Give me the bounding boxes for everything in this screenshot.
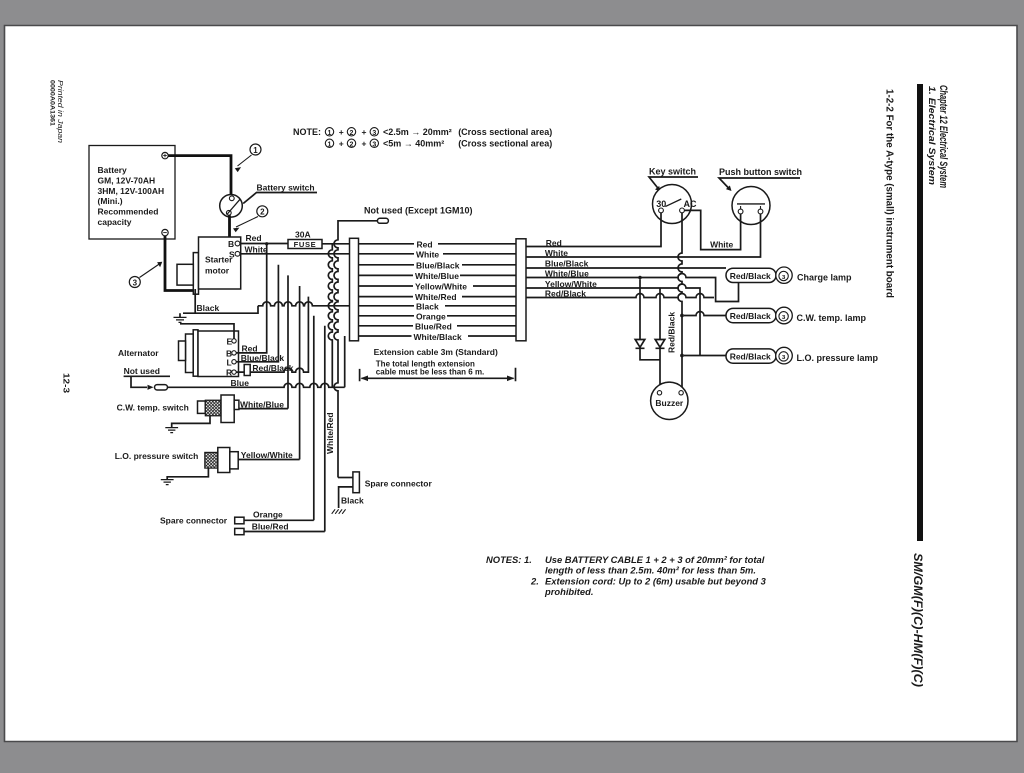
wire white/blue to C.W. switch [239,408,288,410]
wire battery minus to starter body (cable 3) [165,236,193,291]
wire switch to starter B (cable 2) [230,215,236,243]
svg-text:Charge lamp: Charge lamp [797,273,852,283]
spare connector left box 1 [235,517,244,524]
battery switch [220,195,243,218]
ground C.W. switch [172,416,210,428]
svg-text:2: 2 [260,208,265,217]
wire red/black row [526,294,714,298]
svg-text:+: + [362,127,367,137]
svg-text:1: 1 [253,146,258,155]
svg-text:Chapter 12 Electrical System: Chapter 12 Electrical System [937,85,949,188]
svg-text:Red: Red [546,238,562,248]
bus row black [359,305,517,307]
svg-text:3: 3 [133,278,138,287]
svg-text:<2.5m → 20mm²: <2.5m → 20mm² [383,127,452,137]
svg-text:Not used (Except 1GM10): Not used (Except 1GM10) [364,206,473,216]
svg-text:R: R [226,368,232,378]
svg-text:cable must be less than 6 m.: cable must be less than 6 m. [376,367,484,376]
bus row white [359,253,517,255]
wire not used stub [131,376,147,387]
junction dot red row [265,242,268,245]
alternator box [198,331,239,377]
svg-text:Battery: Battery [98,165,128,175]
svg-text:+: + [339,138,344,148]
svg-text:Red: Red [246,233,262,243]
svg-text:White/Blue: White/Blue [240,399,284,409]
junction dot C.W. lamp [680,314,684,318]
dimension line [360,368,516,382]
link white/black row to blue row [344,336,346,387]
svg-text:з: з [782,274,786,281]
svg-text:White/Blue: White/Blue [545,269,589,279]
svg-text:3: 3 [372,141,376,148]
svg-text:Red/Black: Red/Black [730,311,771,321]
svg-text:C.W. temp. switch: C.W. temp. switch [117,403,189,413]
fuse box [288,240,322,249]
blue/red wire [244,531,325,533]
wire key 30 to red row [526,213,661,247]
wire battery plus to switch (cable 1) [168,156,231,195]
L.O. pressure lamp [776,347,793,364]
svg-text:Recommended: Recommended [98,207,159,217]
svg-text:length of less than 2.5m. 40m²: length of less than 2.5m. 40m² for less … [545,565,756,576]
svg-text:2.: 2. [530,575,539,586]
svg-text:2: 2 [350,141,354,148]
wire L.O. lamp row [684,355,726,357]
callout circle 1 [250,144,261,155]
svg-text:Spare connector: Spare connector [365,478,433,488]
note circled 2 [347,128,355,136]
svg-text:White: White [416,249,439,259]
svg-text:Blue/Black: Blue/Black [241,353,285,363]
svg-text:C.W. temp. lamp: C.W. temp. lamp [797,313,867,323]
svg-text:Printed in Japan: Printed in Japan [56,80,63,143]
diode 1 [635,279,660,360]
svg-text:Blue/Black: Blue/Black [545,259,589,269]
svg-text:White: White [245,244,268,254]
L.O. pressure switch [205,452,218,468]
svg-text:Extension cable 3m (Standard): Extension cable 3m (Standard) [374,347,498,357]
C.W. temp lamp [776,307,793,324]
svg-text:Red/Black: Red/Black [730,352,771,362]
alternator body [193,330,198,376]
battery plus terminal [162,152,168,158]
wire C.W. lamp row [684,312,726,316]
svg-text:S: S [229,250,235,260]
svg-text:Yellow/White: Yellow/White [545,279,597,289]
starter motor body [193,253,198,295]
svg-text:NOTES: 1.: NOTES: 1. [486,554,532,565]
svg-text:Red/Black: Red/Black [545,289,586,299]
svg-text:1: 1 [328,141,332,148]
svg-text:1-2-2 For the A-type (small) i: 1-2-2 For the A-type (small) instrument … [884,89,895,298]
svg-text:Spare connector: Spare connector [160,516,228,526]
svg-text:Orange: Orange [253,510,283,520]
callout circle 3 [129,277,140,288]
lozenge connector on blue wire [155,385,168,390]
svg-text:Blue/Red: Blue/Red [415,322,452,332]
svg-text:Red: Red [417,239,433,249]
wire alt B to red riser [236,244,267,353]
svg-text:Battery switch: Battery switch [257,183,315,193]
note circled 1 [325,128,333,136]
wire alt R to red/black riser with hops [236,297,308,373]
C.W. temp switch [198,401,206,413]
svg-text:Red: Red [242,343,258,353]
black stub to ground [339,487,353,508]
wire white row to push button right [526,214,761,257]
svg-text:Blue/Red: Blue/Red [252,521,289,531]
svg-text:White: White [545,248,568,258]
AC riser down to buzzer with hops [678,213,682,391]
wire yellow/white to L.O. switch [238,459,299,461]
svg-text:White: White [710,240,733,250]
svg-text:(Cross sectional area): (Cross sectional area) [458,127,552,137]
wire E to ground [180,324,234,339]
push button switch [732,187,770,225]
left connector bar [350,238,359,340]
hatched ground [332,509,346,514]
svg-text:prohibited.: prohibited. [544,586,593,597]
wire alt L to blue/black riser [236,265,278,362]
wire yellow/white row to C.W. riser [526,284,700,356]
spare connector left box 2 [235,528,244,534]
right connector bar [516,239,526,341]
svg-text:(Cross sectional area): (Cross sectional area) [458,138,552,148]
svg-text:GM, 12V-70AH: GM, 12V-70AH [98,176,156,186]
battery box [89,146,175,240]
starter motor box [199,237,241,289]
svg-text:capacity: capacity [98,217,132,227]
svg-text:White/Red: White/Red [325,412,335,454]
svg-text:+: + [362,138,367,148]
junction dot diode 1 [638,276,642,280]
svg-text:(Mini.): (Mini.) [98,196,123,206]
svg-text:Black: Black [197,303,220,313]
ground L.O. switch [167,468,208,479]
wavy riser white/red V8 from not-used stub to right spare connector [334,221,377,478]
svg-text:Black: Black [416,302,439,312]
svg-text:L.O. pressure lamp: L.O. pressure lamp [797,353,879,363]
svg-text:Blue/Black: Blue/Black [416,260,460,270]
yellow/white riser to L.O. switch [299,286,301,460]
svg-text:Black: Black [341,495,364,505]
svg-text:1. Electrical System: 1. Electrical System [927,86,937,185]
svg-text:Orange: Orange [416,312,446,322]
wire red row (starter B to fuse to left bar) [240,243,350,245]
L.O. lamp label lozenge [726,349,776,363]
right margin: thick rule [917,84,923,541]
key switch [653,185,692,224]
bus row orange [359,315,517,317]
bus row white/red [359,296,517,298]
svg-text:AC: AC [684,199,697,209]
svg-text:Red/Black: Red/Black [730,271,771,281]
svg-text:Yellow/White: Yellow/White [415,282,467,292]
note line 2 circled digits [325,139,333,147]
svg-text:Push button switch: Push button switch [719,167,802,177]
svg-text:NOTE:: NOTE: [293,127,321,137]
svg-text:0000A0A1361: 0000A0A1361 [49,80,56,126]
svg-text:White/Blue: White/Blue [415,271,459,281]
svg-text:+: + [339,127,344,137]
diode 2 [655,288,665,391]
svg-text:L.O. pressure switch: L.O. pressure switch [115,451,199,461]
svg-text:SM/GM(F)(C)-HM(F)(C): SM/GM(F)(C)-HM(F)(C) [911,553,925,687]
charge lamp [776,267,792,283]
wire black row to left bar with hops [258,302,350,306]
wire AC to push button left (white) [684,210,740,249]
callout circle 2 [257,206,268,217]
orange wire [244,519,314,521]
bus row blue/black [359,264,517,266]
svg-text:30A: 30A [295,230,311,240]
blue/red riser to spare connector [324,326,326,532]
svg-text:White/Black: White/Black [414,332,462,342]
svg-text:з: з [782,314,786,321]
white/blue riser to C.W. switch [287,275,289,408]
spare connector right bar [338,477,353,479]
bus row white/black [359,335,517,337]
svg-text:motor: motor [205,266,230,276]
lozenge connector not used [377,218,388,223]
svg-text:Key switch: Key switch [649,166,696,176]
wire white/blue row to charge lamp via staple [526,274,739,302]
wavy riser V7 [328,244,332,387]
svg-text:1: 1 [328,130,332,137]
buzzer [651,382,688,419]
bus row yellow/white [359,285,517,287]
C.W. lamp label lozenge [726,308,776,322]
svg-text:3: 3 [372,130,376,137]
svg-text:FUSE: FUSE [294,240,317,249]
wire white row (starter S to left bar) [240,253,350,255]
svg-text:30: 30 [656,199,666,209]
charge lamp label lozenge [726,268,776,282]
connector on red/black wire [244,365,250,376]
svg-text:Red/Black: Red/Black [667,312,677,353]
svg-text:Not used: Not used [124,366,160,376]
ground at starter black wire [180,289,258,317]
svg-text:L: L [227,357,232,367]
bus row red [359,243,517,245]
svg-text:2: 2 [350,130,354,137]
blue wire row with hops [168,383,345,387]
svg-text:3HM, 12V-100AH: 3HM, 12V-100AH [98,186,165,196]
svg-text:Alternator: Alternator [118,348,159,358]
svg-text:Buzzer: Buzzer [655,398,684,408]
bus row blue/red [359,325,517,327]
note circled 3 [370,128,378,136]
svg-text:12-3: 12-3 [62,373,72,393]
wire blue/black row to charge lamp [526,267,726,269]
orange riser to spare connector [313,316,315,521]
svg-text:Extension cord: Up to 2 (6m) u: Extension cord: Up to 2 (6m) usable but … [545,575,767,586]
svg-text:B: B [228,239,234,249]
svg-text:Yellow/White: Yellow/White [241,450,293,460]
svg-text:Use BATTERY CABLE 1 + 2 + 3 of: Use BATTERY CABLE 1 + 2 + 3 of 20mm² for… [545,554,765,565]
svg-text:з: з [782,354,786,361]
svg-text:<5m → 40mm²: <5m → 40mm² [383,138,444,148]
junction dot L.O. lamp [680,354,684,358]
battery minus terminal [162,229,168,235]
svg-text:Blue: Blue [231,378,250,388]
bus row white/blue [359,274,517,276]
